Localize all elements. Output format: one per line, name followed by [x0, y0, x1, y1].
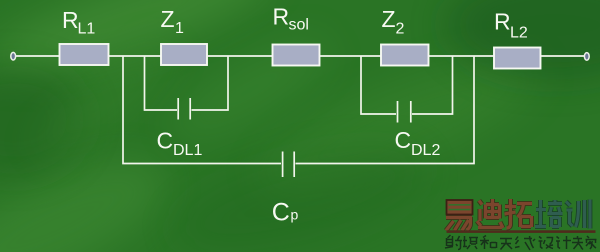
small char zhuan [572, 236, 583, 250]
watermark underline [447, 230, 596, 233]
svg-text:Z: Z [161, 6, 175, 32]
svg-text:DL2: DL2 [411, 142, 440, 159]
watermark char 2 di [477, 199, 503, 228]
svg-text:Z: Z [382, 6, 396, 32]
small char jia [586, 236, 597, 249]
small char he [480, 236, 497, 250]
watermark logo big text (pseudo CJK strokes) [446, 199, 590, 231]
watermark small text row (pseudo CJK) [445, 235, 597, 250]
resistor Z1 [161, 44, 207, 65]
terminal right [584, 53, 589, 61]
watermark char 3 tuo [505, 199, 533, 228]
terminal left [11, 52, 16, 60]
resistor Z2 [381, 45, 429, 66]
svg-text:2: 2 [396, 21, 405, 38]
wire Cp right leg [296, 56, 475, 164]
small char ji [556, 236, 571, 249]
small char she2 [539, 237, 554, 249]
svg-text:DL1: DL1 [173, 142, 202, 159]
svg-text:R: R [62, 7, 79, 33]
small char pin [463, 236, 478, 249]
wire Cp left leg [123, 56, 281, 164]
capacitor C_p plates [282, 152, 284, 178]
svg-text:R: R [494, 9, 511, 35]
wire Cdl2 right leg [412, 56, 453, 114]
label R_sol [273, 4, 309, 34]
label Z2 [382, 6, 405, 38]
label R_L2 [494, 9, 528, 42]
capacitor C_DL1 plates [177, 98, 179, 120]
watermark char 5 xun [566, 200, 590, 229]
small char xian [515, 236, 535, 250]
label C_p [272, 199, 299, 227]
watermark char 1 yi [446, 200, 473, 231]
svg-text:p: p [291, 206, 299, 222]
watermark char 4 pei [535, 200, 563, 227]
svg-text:L2: L2 [510, 25, 528, 42]
svg-text:C: C [157, 128, 174, 154]
circuit wires and symbols [15, 56, 585, 177]
wire Cdl1 right leg [192, 56, 229, 110]
svg-text:L1: L1 [78, 21, 96, 38]
svg-text:sol: sol [289, 17, 309, 34]
label C_DL1 [157, 128, 203, 160]
small char she [445, 235, 462, 250]
label Z1 [161, 6, 185, 37]
svg-text:C: C [272, 199, 290, 227]
resistor R_L2 [494, 48, 541, 69]
resistor R_L1 [60, 44, 109, 65]
wire Cdl2 left leg [361, 56, 396, 114]
svg-text:1: 1 [175, 20, 184, 37]
capacitor C_DL2 plates [397, 101, 399, 123]
label C_DL2 [395, 127, 441, 159]
small char tian [500, 239, 512, 250]
svg-text:R: R [273, 4, 290, 30]
wire Cdl1 left leg [145, 56, 178, 110]
svg-text:C: C [395, 127, 412, 153]
wire main horizontal [15, 55, 585, 57]
resistor R_sol [273, 45, 320, 66]
label R_L1 [62, 7, 95, 38]
